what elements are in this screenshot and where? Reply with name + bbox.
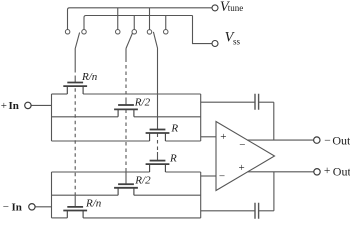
- wire row2 right: [134, 116, 201, 118]
- node S3 contact a: [147, 30, 152, 35]
- wire op-amp bottom input lead: [201, 175, 216, 177]
- terminal Vss: [212, 41, 218, 47]
- wire gate line R2 dashed upper: [125, 59, 127, 102]
- svg-text:tune: tune: [228, 3, 244, 13]
- svg-text:−: −: [239, 139, 245, 151]
- wire row4 right: [165, 171, 200, 173]
- transistor M2 R/2 top: [114, 105, 138, 117]
- switch S3 arm: [153, 32, 157, 49]
- svg-text:+: +: [324, 165, 331, 177]
- svg-text:ss: ss: [233, 37, 241, 47]
- wire gate drop M1: [74, 79, 76, 83]
- node S1 contact a: [65, 30, 70, 35]
- transistor M4 R bottom: [146, 161, 170, 172]
- wire gate line Rn dashed main: [74, 88, 76, 196]
- wire gate line R dashed: [157, 134, 159, 153]
- svg-text:R: R: [170, 122, 178, 134]
- wire top-left bus: [51, 94, 53, 141]
- switch S2 arm: [126, 33, 133, 49]
- svg-text:−: −: [3, 201, 9, 213]
- wire -Out lead: [247, 139, 313, 141]
- svg-text:+: +: [1, 100, 7, 112]
- wire C2 to +Out: [273, 172, 275, 211]
- transistor M6 R/n bottom: [63, 207, 87, 218]
- terminal +Out: [314, 169, 320, 175]
- wire C1 to -Out: [273, 102, 275, 140]
- node S2 contact b: [132, 30, 137, 35]
- wire S2 contact b drop: [133, 16, 135, 30]
- node S1 contact b: [82, 30, 87, 35]
- svg-text:−: −: [219, 170, 225, 182]
- wire bottom-right bus: [200, 172, 202, 218]
- wire Vss drop: [193, 16, 212, 44]
- wire Vtune rail: [68, 8, 212, 30]
- wire row6 left: [52, 217, 68, 219]
- capacitor C2 right wire: [259, 210, 274, 212]
- wire S3 contact b drop: [165, 16, 167, 30]
- wire gate line R2 solid upper: [125, 49, 127, 59]
- capacitor C1 plates: [255, 94, 259, 110]
- terminal Vtune: [212, 5, 218, 11]
- svg-text:−: −: [324, 135, 331, 147]
- node S2 contact a: [116, 30, 121, 35]
- terminal +In: [25, 102, 31, 108]
- svg-text:R/2: R/2: [134, 97, 151, 109]
- wire row3 left: [52, 140, 150, 142]
- wire bottom-left bus: [51, 172, 53, 218]
- capacitor C1 right wire: [259, 101, 274, 103]
- svg-text:In: In: [9, 100, 19, 112]
- svg-text:Out: Out: [333, 165, 350, 179]
- svg-text:Out: Out: [332, 134, 350, 148]
- svg-text:+: +: [238, 162, 244, 174]
- wire +In lead: [32, 104, 52, 106]
- terminal -Out: [314, 137, 320, 143]
- wire gate drop M4: [157, 152, 159, 161]
- wire S2 contact a drop: [117, 8, 119, 30]
- svg-text:+: +: [220, 131, 226, 143]
- wire S3 contact a drop: [149, 8, 151, 30]
- wire gate drop M5: [125, 171, 127, 185]
- wire row1 left: [52, 93, 68, 95]
- wire gate drop M6: [74, 196, 76, 207]
- wire row5 right: [134, 194, 201, 196]
- wire gate line Rn solid upper: [74, 49, 76, 69]
- wire row6 right: [83, 217, 201, 219]
- wire gate drop M2: [125, 101, 127, 105]
- svg-text:R/n: R/n: [85, 198, 102, 210]
- svg-text:R/2: R/2: [134, 175, 151, 187]
- wire gate line R2 dashed main: [125, 110, 127, 171]
- wire row5 left: [52, 194, 119, 196]
- wire op-amp top input lead: [201, 136, 216, 138]
- capacitor C2 left wire: [201, 210, 255, 212]
- switch S1 arm: [75, 33, 80, 50]
- transistor M1 R/n top: [63, 83, 87, 95]
- svg-text:In: In: [12, 202, 22, 214]
- capacitor C1 left wire: [201, 101, 255, 103]
- terminal -In: [29, 204, 35, 210]
- wire row2 left: [52, 116, 119, 118]
- wire gate line R solid: [157, 49, 159, 130]
- transistor M3 R top: [146, 130, 170, 142]
- node S3 contact b: [164, 30, 169, 35]
- wire gate line Rn dashed upper: [74, 69, 76, 79]
- wire top-right bus: [200, 94, 202, 141]
- svg-text:R: R: [169, 153, 177, 165]
- wire +Out lead: [248, 171, 314, 173]
- op-amp U1: [216, 122, 275, 191]
- capacitor C2 plates: [255, 203, 259, 219]
- transistor M5 R/2 bottom: [114, 184, 138, 195]
- wire row3 right: [165, 140, 200, 142]
- wire row1 right: [83, 93, 201, 95]
- wire row4 left: [52, 171, 150, 173]
- svg-text:R/n: R/n: [81, 71, 98, 83]
- wire Vss rail: [84, 16, 193, 30]
- wire -In lead: [35, 206, 51, 208]
